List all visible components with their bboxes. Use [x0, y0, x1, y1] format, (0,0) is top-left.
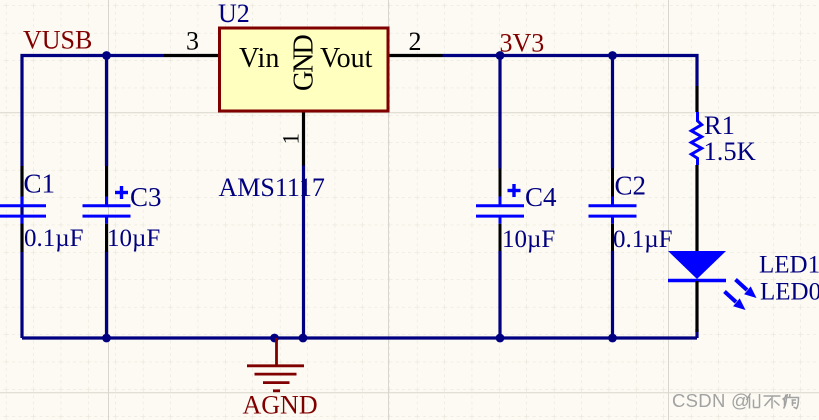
LED light arrow 1 [736, 280, 757, 299]
junction node bus/AGND [270, 334, 279, 343]
junction node VUSB/C3 [102, 51, 111, 60]
svg-text:LED0: LED0 [760, 279, 819, 306]
svg-text:1.5K: 1.5K [704, 136, 756, 166]
svg-text:C2: C2 [615, 171, 647, 201]
wire C2 branch lower [611, 251, 614, 338]
pin 1 of U2 (GND pin) [302, 111, 305, 166]
svg-text:0.1µF: 0.1µF [613, 226, 673, 253]
wire C4 branch lower [498, 251, 501, 338]
ground symbol AGND [247, 338, 304, 391]
capacitor C1 [0, 166, 46, 252]
svg-text:AGND: AGND [243, 391, 318, 420]
capacitor C3 (polarized) [83, 166, 131, 252]
plus sign C4 [508, 184, 521, 197]
svg-text:3V3: 3V3 [500, 29, 545, 58]
junction node bus/U2 GND [299, 334, 308, 343]
svg-text:U2: U2 [218, 0, 250, 28]
wire C3 branch lower [105, 251, 108, 339]
svg-text:LED1: LED1 [759, 252, 819, 279]
junction node 3V3/C2 [608, 51, 617, 60]
svg-text:C4: C4 [525, 182, 557, 212]
svg-text:C1: C1 [24, 169, 56, 199]
wire ground bus AGND [22, 336, 697, 339]
capacitor C4 (polarized) [476, 169, 524, 252]
LED light arrow 2 [725, 292, 746, 311]
wire C2 branch upper [611, 56, 614, 169]
svg-text:10µF: 10µF [502, 226, 555, 253]
junction node bus/C2 [608, 334, 617, 343]
svg-text:VUSB: VUSB [23, 26, 92, 55]
wire U2 GND to bus [302, 165, 305, 338]
C4 blue stub top [499, 197, 502, 206]
resistor R1 [691, 86, 701, 252]
watermark CSDN @xianbuhui [672, 390, 799, 411]
wire VUSB top rail (net VUSB) [22, 56, 164, 339]
junction node bus/C3 [102, 334, 111, 343]
wire 3V3 top rail (net 3V3) [443, 56, 698, 87]
svg-text:10µF: 10µF [107, 225, 160, 252]
junction node 3V3/C4 [496, 51, 505, 60]
svg-text:CSDN @: CSDN @ [672, 390, 750, 411]
svg-text:2: 2 [409, 27, 422, 56]
svg-text:C3: C3 [130, 182, 162, 212]
svg-text:Vin: Vin [239, 43, 279, 74]
svg-text:Vout: Vout [320, 43, 373, 74]
LED D1 symbol [668, 251, 726, 332]
C3 blue stub top [105, 197, 108, 206]
wire C4 branch upper [498, 56, 501, 169]
pin 2 of U2 [388, 54, 443, 57]
plus sign C3 [115, 186, 128, 199]
wire C3 branch upper [105, 56, 108, 167]
svg-text:GND: GND [289, 35, 320, 91]
capacitor C2 [589, 169, 637, 252]
pin 3 of U2 [164, 54, 220, 57]
wire LED cathode to bus corner [695, 329, 698, 338]
svg-text:AMS1117: AMS1117 [219, 173, 325, 202]
svg-text:0.1µF: 0.1µF [24, 225, 84, 252]
svg-text:3: 3 [186, 27, 199, 56]
C1 blue stub top [21, 197, 24, 206]
junction node bus/C4 [496, 334, 505, 343]
op-amp regulator U2 body (AMS1117) [220, 28, 389, 111]
C2 blue stub top [611, 197, 614, 206]
svg-text:1: 1 [279, 133, 304, 145]
